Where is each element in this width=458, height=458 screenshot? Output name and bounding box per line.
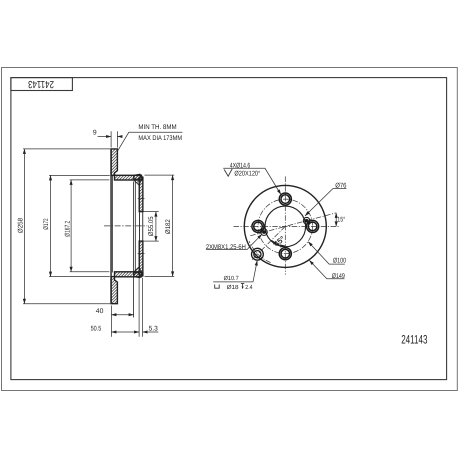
svg-text:Ø100: Ø100 [333,257,346,264]
svg-text:Ø55.05: Ø55.05 [148,216,155,236]
svg-text:Ø76: Ø76 [335,182,346,189]
svg-text:50.5: 50.5 [91,326,102,333]
svg-text:15°: 15° [337,217,345,224]
svg-text:Ø10.7: Ø10.7 [224,275,240,282]
svg-text:Ø20X120°: Ø20X120° [234,170,260,177]
svg-text:Ø258: Ø258 [18,218,25,233]
svg-text:241143: 241143 [401,332,427,346]
svg-text:Ø18: Ø18 [227,284,240,291]
svg-text:5.3: 5.3 [149,326,158,333]
svg-text:MIN TH. 8MM: MIN TH. 8MM [138,124,177,131]
svg-text:MAX DIA 173MM: MAX DIA 173MM [138,135,182,142]
svg-text:Ø182: Ø182 [165,219,172,234]
svg-text:40: 40 [96,308,104,315]
svg-text:Ø149: Ø149 [332,273,345,280]
svg-text:2XM8X1.25-6H: 2XM8X1.25-6H [206,244,246,251]
svg-text:2.4: 2.4 [245,284,253,291]
svg-text:Ø172: Ø172 [43,218,50,229]
svg-text:4XØ14.6: 4XØ14.6 [230,163,251,170]
svg-text:241143: 241143 [28,78,54,89]
svg-text:9: 9 [93,130,97,137]
svg-text:Ø167.2: Ø167.2 [64,221,71,237]
